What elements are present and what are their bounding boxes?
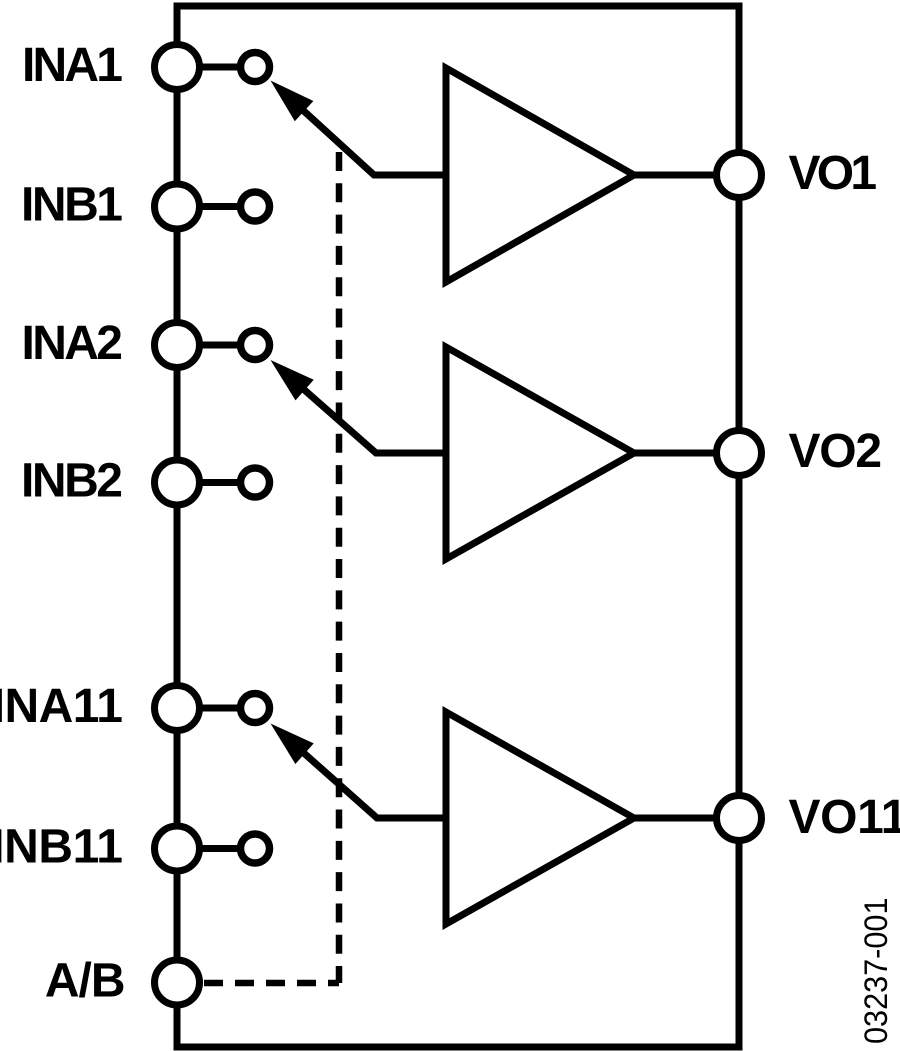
- svg-text:VO2: VO2: [789, 425, 883, 478]
- svg-text:INA2: INA2: [22, 317, 124, 370]
- svg-text:A/B: A/B: [45, 955, 126, 1008]
- svg-text:INB1: INB1: [21, 179, 123, 232]
- svg-text:VO1: VO1: [789, 147, 878, 200]
- svg-text:INB2: INB2: [21, 455, 123, 508]
- svg-text:INA11: INA11: [0, 680, 123, 733]
- svg-text:INA1: INA1: [22, 39, 123, 92]
- svg-text:03237-001: 03237-001: [858, 898, 894, 1045]
- svg-text:VO11: VO11: [789, 791, 900, 844]
- svg-text:INB11: INB11: [0, 821, 123, 874]
